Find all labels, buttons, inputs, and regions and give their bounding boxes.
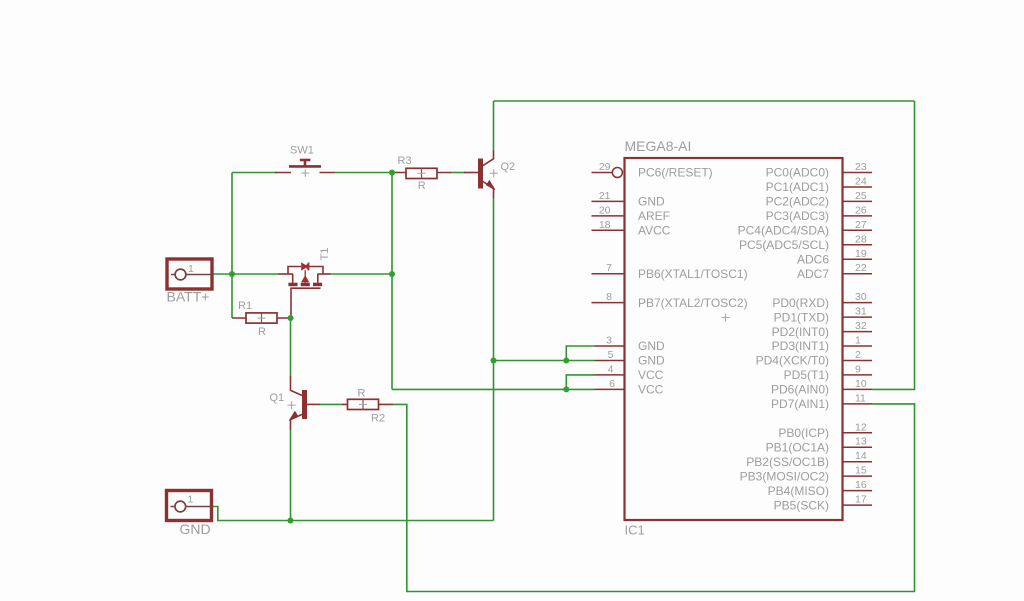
svg-text:VCC: VCC [638,368,664,382]
connector GND [167,491,213,538]
svg-text:AVCC: AVCC [638,224,671,238]
wire GND branch to pin 5 [494,360,595,362]
wire BATT junction down to R1 [231,274,233,318]
svg-text:BATT+: BATT+ [167,289,210,305]
pin 22 ADC7 [843,273,873,275]
pin 10 PD6 [843,388,873,390]
svg-text:PD5(T1): PD5(T1) [784,368,829,382]
svg-text:PC2(ADC2): PC2(ADC2) [766,195,829,209]
wire SW1 right to R3 junction [334,172,392,174]
pin 29 PC6(/RESET) [592,172,613,174]
svg-text:22: 22 [855,262,867,274]
svg-text:T1: T1 [319,248,331,261]
mosfet T1 [278,267,331,283]
svg-text:PD2(INT0): PD2(INT0) [772,325,829,339]
pin 6 VCC [595,388,625,390]
pin 21 GND [592,200,625,202]
transistor Q2 origin cross [490,169,498,177]
switch SW1 [275,160,335,173]
pin 17 PB5 [843,504,873,506]
resistor R1 origin cross [261,313,263,323]
wire left vertical BATT to SW1 [231,173,233,275]
IC1 origin cross [722,314,730,322]
svg-text:PB7(XTAL2/TOSC2): PB7(XTAL2/TOSC2) [638,296,748,310]
pin 29 inversion bubble [612,168,622,178]
pin 9 PD5 [843,374,873,376]
svg-text:R: R [358,388,366,400]
mosfet T1 channel bars [288,283,322,287]
junction GND pins 3/5 branch [563,358,569,364]
transistor Q1 origin cross [288,401,296,409]
svg-text:14: 14 [855,450,867,462]
pin 16 PB4 [843,490,873,492]
resistor R3 origin cross [421,168,423,178]
svg-text:PD4(XCK/T0): PD4(XCK/T0) [756,354,829,368]
svg-text:PC1(ADC1): PC1(ADC1) [766,180,829,194]
pin 4 VCC [595,374,625,376]
svg-text:GND: GND [638,354,665,368]
svg-text:28: 28 [855,233,867,245]
wire GND branch to pin 3 [566,346,594,361]
svg-text:1: 1 [188,263,194,275]
svg-text:PB5(SCK): PB5(SCK) [774,498,829,512]
junction T1 drain node [389,271,395,277]
junction R1/T1 gate node [288,315,294,321]
svg-text:9: 9 [855,363,861,375]
svg-text:27: 27 [855,219,867,231]
pin 11 PD7 [843,403,873,405]
wire VCC row to pin 6 [392,388,595,390]
svg-text:PB1(OC1A): PB1(OC1A) [766,440,829,454]
svg-text:PC3(ADC3): PC3(ADC3) [766,209,829,223]
pin 27 PC4 [843,229,873,231]
svg-text:PD6(AIN0): PD6(AIN0) [771,383,829,397]
wire BATT+ row [213,273,279,275]
pin 8 PB7 [592,302,625,304]
resistor R3 [392,168,451,178]
svg-text:1: 1 [188,493,194,505]
svg-text:32: 32 [855,320,867,332]
svg-text:GND: GND [638,195,665,209]
svg-text:PC5(ADC5/SCL): PC5(ADC5/SCL) [739,238,829,252]
svg-text:PD7(AIN1): PD7(AIN1) [771,397,829,411]
svg-text:AREF: AREF [638,209,670,223]
wire Q2 emitter vertical [493,198,495,521]
junction Q1 emitter GND node [288,518,294,524]
pin 18 AVCC [592,229,625,231]
pin 24 PC1 [843,186,873,188]
svg-text:MEGA8-AI: MEGA8-AI [625,138,692,154]
svg-text:SW1: SW1 [290,145,314,157]
svg-text:25: 25 [855,190,867,202]
svg-text:31: 31 [855,306,867,318]
wire GND connector jog and GND row [212,507,494,521]
pin 14 PB2 [843,461,873,463]
svg-text:18: 18 [599,219,611,231]
mosfet T1 center stem [304,270,306,283]
junction SW1/R3 node [389,170,395,176]
pin 25 PC2 [843,200,873,202]
pin 20 AREF [592,215,625,217]
mosfet T1 body diode [301,262,309,270]
svg-text:15: 15 [855,465,867,477]
wire Q2 collector vertical [493,101,495,150]
svg-text:17: 17 [855,494,867,506]
svg-text:PC6(/RESET): PC6(/RESET) [638,166,713,180]
svg-text:10: 10 [855,378,867,390]
svg-text:30: 30 [855,291,867,303]
junction BATT+ node [229,271,235,277]
wire pin 11 net to R2 [393,404,915,592]
junction VCC pins 4/6 branch [563,386,569,392]
svg-text:26: 26 [855,204,867,216]
svg-text:Q2: Q2 [501,161,516,173]
svg-text:29: 29 [599,161,611,173]
transistor Q1 (mirrored) [289,376,319,430]
pin 31 PD1 [843,316,873,318]
pin 1 PD3 [843,345,873,347]
svg-text:19: 19 [855,248,867,260]
pin 12 PB0 [843,432,873,434]
svg-text:20: 20 [599,204,611,216]
svg-text:ADC6: ADC6 [797,253,829,267]
wire Q1 base to R2 [320,403,343,405]
switch SW1 origin cross [302,169,310,177]
svg-text:ADC7: ADC7 [797,267,829,281]
svg-text:5: 5 [608,349,614,361]
svg-text:PB3(MOSI/OC2): PB3(MOSI/OC2) [740,469,829,483]
mosfet T1 substrate arrow [301,275,309,282]
resistor R2 [342,399,393,409]
svg-text:2: 2 [855,349,861,361]
svg-text:24: 24 [855,176,867,188]
resistor R1 [232,313,291,323]
svg-text:R: R [258,326,266,338]
svg-text:VCC: VCC [638,383,664,397]
pin 3 GND [595,345,625,347]
svg-text:GND: GND [638,339,665,353]
svg-text:PB4(MISO): PB4(MISO) [768,484,829,498]
svg-text:Q1: Q1 [270,392,285,404]
svg-text:8: 8 [606,291,612,303]
svg-text:PB6(XTAL1/TOSC1): PB6(XTAL1/TOSC1) [638,267,748,281]
svg-text:12: 12 [855,421,867,433]
svg-text:R2: R2 [371,413,385,425]
pin 5 GND [595,360,625,362]
wire VCC branch to pin 4 [566,375,594,390]
wire top horizontal [494,100,915,102]
svg-text:23: 23 [855,161,867,173]
pin 28 PC5 [843,244,873,246]
pin 26 PC3 [843,215,873,217]
mosfet T1 gate [291,288,321,318]
wire right vertical to pin 10 [872,101,915,389]
connector BATT+ [167,259,214,305]
wire T1 drain to junction [330,273,392,275]
svg-text:IC1: IC1 [625,523,645,538]
svg-text:R: R [418,180,426,192]
svg-text:3: 3 [606,335,612,347]
IC1 MEGA8-AI box [625,158,843,520]
wire SW1 row left segment [232,172,277,174]
pin 32 PD2 [843,331,873,333]
svg-text:GND: GND [180,521,211,537]
svg-text:PB2(SS/OC1B): PB2(SS/OC1B) [746,455,829,469]
pin 13 PB1 [843,446,873,448]
pin 7 PB6 [592,273,625,275]
svg-text:PD0(RXD): PD0(RXD) [772,296,829,310]
svg-text:PD1(TXD): PD1(TXD) [774,310,829,324]
junction Q2 emitter GND branch [491,358,497,364]
svg-text:PB0(ICP): PB0(ICP) [778,426,829,440]
wire R3 to Q2 base [451,172,466,174]
wire R1/T1-gate junction down to Q1 collector [290,318,292,377]
pin 23 PC0 [843,172,873,174]
svg-text:R1: R1 [238,300,252,312]
pin 30 PD0 [843,302,873,304]
transistor Q2 [464,150,495,198]
pin 19 ADC6 [843,258,873,260]
svg-text:11: 11 [855,392,866,404]
pin 2 PD4 [843,360,873,362]
resistor R2 origin cross [362,399,364,409]
svg-text:21: 21 [599,190,611,202]
svg-text:PD3(INT1): PD3(INT1) [772,339,829,353]
svg-text:PC4(ADC4/SDA): PC4(ADC4/SDA) [738,224,829,238]
svg-text:1: 1 [855,335,861,347]
svg-text:16: 16 [855,479,867,491]
pin 15 PB3 [843,475,873,477]
wire vertical R3/T1 to VCC corner [391,173,393,390]
svg-text:PC0(ADC0): PC0(ADC0) [766,166,829,180]
svg-text:R3: R3 [398,155,412,167]
svg-text:13: 13 [855,436,867,448]
svg-text:4: 4 [608,363,614,375]
svg-text:6: 6 [609,378,615,390]
wire Q1 emitter to GND row [290,429,292,521]
svg-text:7: 7 [606,262,612,274]
